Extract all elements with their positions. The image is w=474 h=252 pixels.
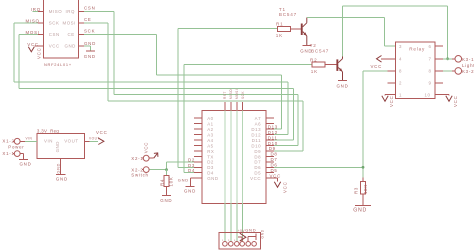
svg-text:MISO: MISO (49, 9, 62, 14)
svg-text:VCC: VCC (389, 95, 394, 107)
svg-text:VIN: VIN (44, 139, 53, 144)
pin stubs U1 right (79, 12, 85, 47)
transistor T2 BC547 (310, 43, 343, 80)
svg-text:D4: D4 (207, 171, 214, 176)
svg-text:MOSI: MOSI (235, 89, 239, 99)
supply VCC at ISP header (238, 229, 246, 242)
ground GND below regulator (56, 158, 68, 181)
svg-text:Power: Power (8, 145, 24, 150)
svg-text:D6: D6 (254, 165, 261, 170)
supply VCC at relay pin1 (382, 95, 396, 107)
connector X2-1 with VCC (131, 142, 158, 161)
node IRQ (31, 7, 41, 12)
svg-text:K3-2: K3-2 (462, 69, 474, 74)
svg-text:A4: A4 (207, 138, 213, 143)
wire D2 net from switch (149, 157, 195, 169)
svg-text:GND: GND (207, 176, 218, 181)
svg-text:MOSI: MOSI (26, 30, 40, 35)
ground GND at T2 emitter (337, 81, 349, 89)
svg-text:R1: R1 (276, 21, 283, 26)
svg-text:R4: R4 (159, 179, 164, 186)
pin labels ISP header (222, 240, 242, 242)
svg-text:Switch: Switch (131, 172, 148, 177)
svg-text:GND: GND (84, 41, 96, 46)
svg-text:10K: 10K (363, 184, 368, 194)
svg-text:X2-1: X2-1 (131, 156, 143, 161)
svg-text:GND: GND (20, 162, 32, 167)
svg-text:VCC: VCC (453, 95, 458, 107)
svg-text:10K: 10K (169, 176, 174, 186)
wire D4 net to R2 (184, 64, 312, 173)
svg-text:MOSI: MOSI (63, 21, 76, 26)
wire ISP MOSI through U2 (236, 111, 238, 204)
svg-text:CSN: CSN (49, 32, 60, 37)
svg-text:GND: GND (245, 228, 256, 233)
svg-text:D11: D11 (252, 138, 261, 143)
svg-text:Light: Light (462, 63, 474, 68)
svg-text:GND: GND (160, 198, 172, 203)
svg-text:GND: GND (55, 141, 60, 152)
svg-text:IRQ: IRQ (66, 9, 75, 14)
svg-text:GND: GND (178, 177, 189, 182)
pin stubs U1 left (35, 12, 44, 47)
svg-text:VCC: VCC (27, 42, 39, 47)
svg-text:1K: 1K (311, 69, 318, 74)
wire CSN (84, 6, 298, 146)
wire VIN (25, 137, 37, 142)
svg-text:GND: GND (65, 44, 76, 49)
svg-text:RX: RX (207, 149, 214, 154)
svg-text:GND: GND (353, 207, 367, 213)
svg-text:GND: GND (57, 163, 61, 174)
wire relay pin7 to K3-1 (435, 58, 455, 60)
svg-text:8: 8 (399, 69, 402, 74)
svg-text:2: 2 (399, 81, 402, 86)
svg-text:VCC: VCC (250, 176, 261, 181)
wire T1 collector to relay pin3 (307, 18, 396, 47)
supply VCC arrow at relay pin4 (371, 56, 396, 70)
connector X1-2 (2, 138, 25, 144)
wire T2 collector to K3-1 node (343, 6, 448, 59)
svg-text:CE: CE (68, 32, 75, 37)
wire relay pin8 to K3-2 (435, 70, 455, 72)
pin stubs U2 left (194, 118, 202, 178)
wire VOUT to VCC (85, 137, 100, 142)
wire SCK (84, 29, 282, 129)
svg-text:D5: D5 (254, 171, 261, 176)
connector K3-2 (455, 68, 474, 75)
svg-text:VCC: VCC (143, 142, 148, 154)
svg-text:A0: A0 (207, 116, 213, 121)
connector SV1 ISP header (219, 232, 261, 249)
svg-text:D10: D10 (268, 141, 278, 146)
wire D3 net to R1 (178, 29, 278, 168)
connector X2-2 switch (131, 167, 149, 178)
svg-text:K3-1: K3-1 (462, 57, 474, 62)
svg-text:10: 10 (425, 93, 431, 98)
svg-text:D4: D4 (188, 168, 195, 173)
svg-text:D8: D8 (254, 154, 261, 159)
svg-text:D2: D2 (188, 157, 195, 162)
svg-text:VCC: VCC (96, 130, 108, 135)
svg-text:D5: D5 (271, 168, 278, 173)
svg-text:NRF24L01+: NRF24L01+ (44, 62, 72, 67)
svg-text:GND: GND (261, 229, 265, 238)
svg-text:GND: GND (184, 189, 196, 194)
svg-text:VCC: VCC (371, 64, 383, 69)
svg-text:D10: D10 (251, 143, 261, 148)
svg-text:VCC: VCC (283, 181, 288, 193)
wire MISO (14, 19, 288, 135)
svg-text:D12: D12 (251, 133, 261, 138)
ground GND below R3 (353, 205, 371, 213)
svg-text:VOUT: VOUT (64, 139, 78, 144)
wire ISP RST through U2 (224, 111, 226, 204)
wire ISP SCK through U2 (242, 111, 244, 204)
junction at K3-1 node (446, 57, 449, 60)
resistor R3 (353, 178, 368, 206)
svg-text:D13: D13 (268, 124, 278, 129)
svg-text:D9: D9 (269, 146, 276, 151)
supply VCC at U1 (27, 42, 41, 59)
svg-text:A5: A5 (207, 143, 213, 148)
svg-text:R3: R3 (353, 187, 358, 194)
svg-text:D3: D3 (188, 163, 195, 168)
svg-text:SCK: SCK (49, 21, 60, 26)
resistor R1 (276, 21, 301, 38)
svg-text:TX: TX (207, 154, 214, 159)
wire MOSI (19, 30, 293, 140)
svg-text:1K: 1K (276, 33, 283, 38)
wire ISP MISO through U2 (230, 111, 232, 204)
voltage regulator IC2 3.3V_Reg (37, 129, 85, 159)
svg-text:A1: A1 (207, 122, 213, 127)
svg-text:A6: A6 (255, 122, 261, 127)
pin stubs U2 right (266, 118, 274, 178)
svg-text:VCC: VCC (37, 48, 42, 60)
pin stubs U2 top ISP (225, 102, 243, 111)
supply VCC at relay pin10 (435, 95, 458, 107)
svg-text:D3: D3 (207, 165, 214, 170)
svg-text:4: 4 (399, 57, 402, 62)
svg-text:MISO: MISO (26, 19, 40, 24)
relay K1 (395, 42, 435, 99)
ground GND at U1 (84, 41, 96, 59)
ground GND at X1-1 (19, 154, 32, 167)
svg-text:D2: D2 (207, 160, 214, 165)
ground GND at U2 left (178, 177, 196, 193)
svg-text:D11: D11 (268, 135, 278, 140)
svg-text:VCC: VCC (49, 44, 60, 49)
svg-text:D12: D12 (268, 130, 278, 135)
svg-text:Relay: Relay (409, 47, 425, 52)
svg-text:8: 8 (429, 69, 432, 74)
svg-text:GND: GND (56, 176, 68, 181)
IC U1 NRF24L01+ (44, 0, 79, 67)
pin stubs relay left (388, 71, 396, 83)
resistor R2 (310, 57, 336, 74)
ground GND below R4 (160, 195, 172, 203)
svg-text:MISO: MISO (229, 89, 233, 99)
wire D6 net to R3 node (274, 71, 387, 178)
svg-text:D13: D13 (251, 127, 261, 132)
wire CE (84, 17, 303, 151)
svg-text:D7: D7 (271, 157, 278, 162)
transistor T1 BC547 (279, 7, 307, 45)
resistor R4 (159, 170, 173, 196)
right pin net labels D13..D9 (268, 124, 281, 178)
supply VCC at regulator output (96, 130, 108, 144)
svg-text:GND: GND (337, 84, 349, 89)
svg-text:A3: A3 (207, 133, 213, 138)
svg-text:IRQ: IRQ (31, 7, 41, 12)
svg-text:A7: A7 (255, 116, 261, 121)
ground GND at T1 emitter (300, 46, 312, 54)
svg-text:SCK: SCK (84, 29, 95, 34)
IC U2 Arduino module (202, 111, 266, 204)
svg-text:7: 7 (429, 57, 432, 62)
svg-text:CSN: CSN (84, 6, 96, 11)
svg-text:D8: D8 (271, 152, 278, 157)
svg-text:D7: D7 (254, 160, 261, 165)
svg-text:SCK: SCK (241, 91, 245, 99)
connector K3-1 (455, 56, 474, 63)
svg-text:RST: RST (223, 91, 227, 99)
junction at R3 top (362, 166, 365, 169)
svg-text:9: 9 (429, 81, 432, 86)
svg-text:CE: CE (84, 17, 92, 22)
supply VCC below U2 right (274, 178, 287, 193)
pin stubs relay right (435, 46, 443, 83)
svg-text:D9: D9 (254, 149, 261, 154)
svg-text:BC547: BC547 (311, 48, 329, 53)
svg-text:1: 1 (399, 93, 402, 98)
svg-text:GND: GND (84, 54, 96, 59)
svg-text:A2: A2 (207, 127, 213, 132)
svg-text:3: 3 (399, 44, 402, 49)
svg-text:BC547: BC547 (279, 12, 297, 17)
svg-text:VIN: VIN (26, 137, 33, 141)
connector X1-1 (2, 151, 20, 157)
svg-text:6: 6 (429, 44, 432, 49)
ground GND at ISP header (245, 228, 264, 242)
junction on D2 net (165, 168, 168, 171)
